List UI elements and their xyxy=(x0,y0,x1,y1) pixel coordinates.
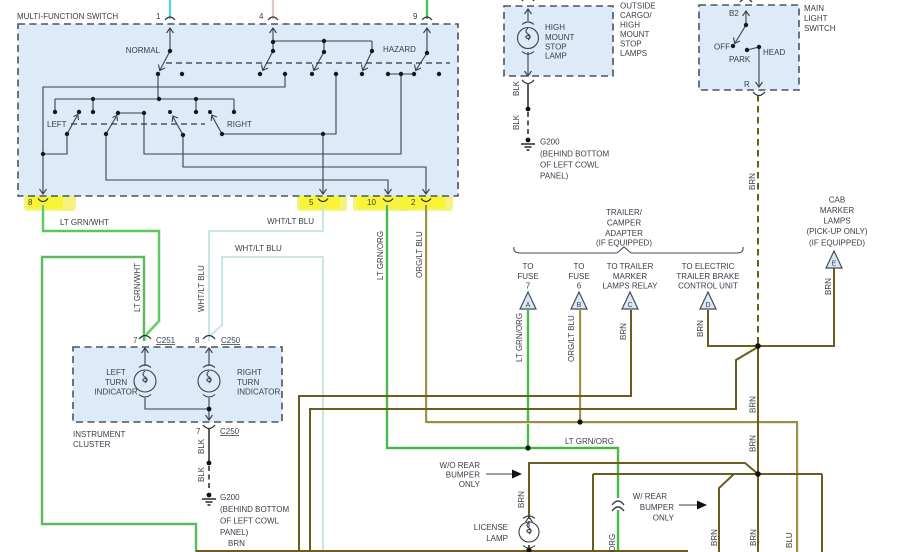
svg-text:ONLY: ONLY xyxy=(653,514,675,523)
svg-text:G200: G200 xyxy=(540,138,560,147)
svg-text:LEFT: LEFT xyxy=(106,368,126,377)
svg-text:7: 7 xyxy=(196,427,201,436)
svg-text:B2: B2 xyxy=(729,9,739,18)
svg-text:BRN: BRN xyxy=(517,491,526,508)
svg-text:MARKER: MARKER xyxy=(820,206,854,215)
svg-text:TURN: TURN xyxy=(105,378,127,387)
svg-text:BRN: BRN xyxy=(748,173,757,190)
svg-text:CAMPER: CAMPER xyxy=(607,219,641,228)
svg-text:WHT/LT BLU: WHT/LT BLU xyxy=(197,265,206,312)
svg-text:(IF EQUIPPED): (IF EQUIPPED) xyxy=(596,239,652,248)
svg-text:BRN: BRN xyxy=(228,539,245,548)
svg-text:LT GRN/ORG: LT GRN/ORG xyxy=(565,437,614,446)
svg-text:W/ REAR: W/ REAR xyxy=(633,492,667,501)
svg-text:HEAD: HEAD xyxy=(763,48,785,57)
svg-text:SWITCH: SWITCH xyxy=(804,24,836,33)
svg-text:W/O REAR: W/O REAR xyxy=(440,461,481,470)
svg-text:(BEHIND BOTTOM: (BEHIND BOTTOM xyxy=(220,505,290,514)
svg-text:LAMPS: LAMPS xyxy=(823,217,850,226)
svg-text:LAMP: LAMP xyxy=(545,52,567,61)
svg-text:LIGHT: LIGHT xyxy=(804,14,828,23)
svg-text:C: C xyxy=(627,302,632,309)
svg-text:ORG/LT BLU: ORG/LT BLU xyxy=(567,315,576,362)
svg-text:OFF: OFF xyxy=(714,43,730,52)
svg-text:HIGH: HIGH xyxy=(545,23,565,32)
svg-text:WHT/LT BLU: WHT/LT BLU xyxy=(235,244,282,253)
svg-text:STOP: STOP xyxy=(545,43,567,52)
svg-text:HAZARD: HAZARD xyxy=(383,45,416,54)
svg-text:BUMPER: BUMPER xyxy=(640,503,674,512)
svg-text:MAIN: MAIN xyxy=(804,4,824,13)
svg-text:CLUSTER: CLUSTER xyxy=(73,440,111,449)
svg-text:OF LEFT COWL: OF LEFT COWL xyxy=(540,161,600,170)
svg-text:LEFT: LEFT xyxy=(47,120,67,129)
svg-text:LAMPS: LAMPS xyxy=(620,49,647,58)
svg-text:(PICK-UP ONLY): (PICK-UP ONLY) xyxy=(806,227,867,236)
svg-text:LAMPS RELAY: LAMPS RELAY xyxy=(603,282,659,291)
svg-text:HIGH: HIGH xyxy=(620,21,640,30)
svg-text:A: A xyxy=(526,302,531,309)
svg-text:1: 1 xyxy=(156,12,161,21)
svg-text:PANEL): PANEL) xyxy=(220,528,249,537)
svg-text:WHT/LT BLU: WHT/LT BLU xyxy=(267,217,314,226)
svg-text:(IF EQUIPPED): (IF EQUIPPED) xyxy=(809,239,865,248)
svg-text:MOUNT: MOUNT xyxy=(620,30,649,39)
svg-text:PANEL): PANEL) xyxy=(540,172,569,181)
svg-text:PARK: PARK xyxy=(729,55,751,64)
svg-text:CAB: CAB xyxy=(829,196,845,205)
svg-text:TURN: TURN xyxy=(237,378,259,387)
svg-text:LT GRN/ORG: LT GRN/ORG xyxy=(376,231,385,280)
svg-text:BRN: BRN xyxy=(824,278,833,295)
svg-text:BLK: BLK xyxy=(512,80,521,96)
svg-text:CARGO/: CARGO/ xyxy=(620,11,652,20)
svg-text:10: 10 xyxy=(367,198,376,207)
svg-text:8: 8 xyxy=(28,198,33,207)
svg-text:7: 7 xyxy=(526,282,531,291)
svg-text:ORG: ORG xyxy=(608,534,617,552)
svg-text:TO: TO xyxy=(523,262,534,271)
svg-text:4: 4 xyxy=(259,12,264,21)
svg-text:OF LEFT COWL: OF LEFT COWL xyxy=(220,517,280,526)
svg-text:TRAILER BRAKE: TRAILER BRAKE xyxy=(676,272,739,281)
svg-text:B: B xyxy=(577,302,582,309)
svg-text:BLK: BLK xyxy=(197,438,206,454)
svg-text:FUSE: FUSE xyxy=(568,272,589,281)
svg-text:ORG/LT BLU: ORG/LT BLU xyxy=(415,231,424,278)
svg-text:INDICATOR: INDICATOR xyxy=(94,388,137,397)
svg-text:STOP: STOP xyxy=(620,40,642,49)
svg-text:D: D xyxy=(705,302,710,309)
svg-text:BRN: BRN xyxy=(696,320,705,337)
svg-text:LAMP: LAMP xyxy=(486,534,508,543)
svg-text:LT GRN/WHT: LT GRN/WHT xyxy=(60,218,109,227)
svg-text:INSTRUMENT: INSTRUMENT xyxy=(73,430,126,439)
svg-text:BLK: BLK xyxy=(512,114,521,130)
svg-text:CONTROL UNIT: CONTROL UNIT xyxy=(678,282,738,291)
svg-text:ONLY: ONLY xyxy=(459,480,481,489)
svg-text:LICENSE: LICENSE xyxy=(474,523,508,532)
svg-text:C250: C250 xyxy=(220,427,240,436)
svg-text:BRN: BRN xyxy=(749,396,758,413)
svg-text:LT GRN/ORG: LT GRN/ORG xyxy=(515,313,524,362)
svg-text:LT GRN/WHT: LT GRN/WHT xyxy=(133,263,142,312)
svg-text:C251: C251 xyxy=(156,336,176,345)
svg-text:BLK: BLK xyxy=(197,466,206,482)
svg-text:NORMAL: NORMAL xyxy=(126,46,161,55)
svg-text:FUSE: FUSE xyxy=(517,272,538,281)
svg-text:TO ELECTRIC: TO ELECTRIC xyxy=(682,262,735,271)
svg-text:MARKER: MARKER xyxy=(613,272,647,281)
svg-text:C250: C250 xyxy=(221,336,241,345)
svg-text:RIGHT: RIGHT xyxy=(227,120,252,129)
svg-text:BRN: BRN xyxy=(710,529,719,546)
svg-text:(BEHIND BOTTOM: (BEHIND BOTTOM xyxy=(540,150,610,159)
svg-text:TO TRAILER: TO TRAILER xyxy=(607,262,654,271)
svg-text:BLU: BLU xyxy=(785,532,794,548)
svg-text:7: 7 xyxy=(133,336,138,345)
svg-text:8: 8 xyxy=(195,336,200,345)
svg-text:R: R xyxy=(744,80,750,89)
svg-text:BRN: BRN xyxy=(619,323,628,340)
svg-text:BRN: BRN xyxy=(749,529,758,546)
svg-text:2: 2 xyxy=(411,198,416,207)
svg-text:MULTI-FUNCTION SWITCH: MULTI-FUNCTION SWITCH xyxy=(17,12,118,21)
svg-text:5: 5 xyxy=(309,198,314,207)
svg-text:MOUNT: MOUNT xyxy=(545,33,574,42)
svg-text:BRN: BRN xyxy=(749,435,758,452)
svg-text:ADAPTER: ADAPTER xyxy=(605,229,643,238)
svg-text:9: 9 xyxy=(413,12,418,21)
svg-text:RIGHT: RIGHT xyxy=(237,368,262,377)
svg-text:TO: TO xyxy=(574,262,585,271)
svg-text:BUMPER: BUMPER xyxy=(446,471,480,480)
svg-text:G200: G200 xyxy=(220,493,240,502)
svg-text:E: E xyxy=(832,261,837,268)
svg-text:TRAILER/: TRAILER/ xyxy=(606,208,643,217)
svg-text:INDICATOR: INDICATOR xyxy=(237,388,280,397)
svg-text:OUTSIDE: OUTSIDE xyxy=(620,2,656,11)
svg-text:6: 6 xyxy=(577,282,582,291)
